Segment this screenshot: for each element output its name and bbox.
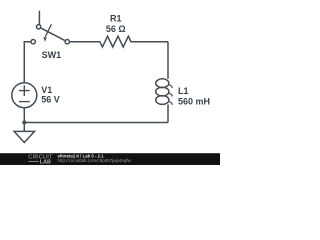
- junction node dot: [22, 121, 26, 125]
- switch SW1 right terminal: [65, 40, 69, 44]
- switch SW1 actuator arrow: [45, 24, 51, 37]
- watermark bar background: [0, 153, 220, 165]
- svg-text:LAB: LAB: [40, 160, 51, 166]
- wire switch top stub: [38, 11, 40, 25]
- V1 minus sign: [19, 101, 30, 103]
- svg-text:http://circuitlab.com/c9pd57jw: http://circuitlab.com/c9pd57jwp4sqfw: [58, 158, 132, 163]
- svg-text:R1: R1: [110, 14, 122, 24]
- inductor L1 coil loop 2: [156, 87, 169, 96]
- inductor L1 coil loop 3: [156, 96, 169, 105]
- svg-text:56 V: 56 V: [41, 95, 60, 105]
- V1 plus sign: [19, 85, 30, 96]
- inductor L1 coil tails: [168, 84, 172, 104]
- wire source to bottom junction: [23, 108, 25, 123]
- svg-text:V1: V1: [41, 85, 52, 95]
- wire bottom rail: [24, 122, 168, 124]
- svg-text:L1: L1: [178, 86, 189, 96]
- voltage source V1: [12, 83, 37, 108]
- wire right rail upper: [167, 42, 169, 79]
- switch SW1 arm: [41, 28, 64, 40]
- svg-text:560 mH: 560 mH: [178, 96, 210, 106]
- wire right rail lower: [167, 104, 169, 122]
- wire top rail with resistor R1 zigzag: [70, 36, 169, 47]
- switch SW1 arrow head: [43, 37, 47, 42]
- ground stem: [23, 123, 25, 132]
- switch SW1 left terminal: [31, 40, 35, 44]
- wire left rail from switch to source: [24, 42, 31, 83]
- watermark CircuitLab logo line: [29, 160, 39, 162]
- switch SW1 top terminal: [36, 25, 40, 29]
- svg-text:56 Ω: 56 Ω: [106, 24, 126, 34]
- svg-text:SW1: SW1: [42, 50, 62, 60]
- ground triangle: [14, 131, 34, 142]
- inductor L1 coil loop 1: [156, 79, 169, 88]
